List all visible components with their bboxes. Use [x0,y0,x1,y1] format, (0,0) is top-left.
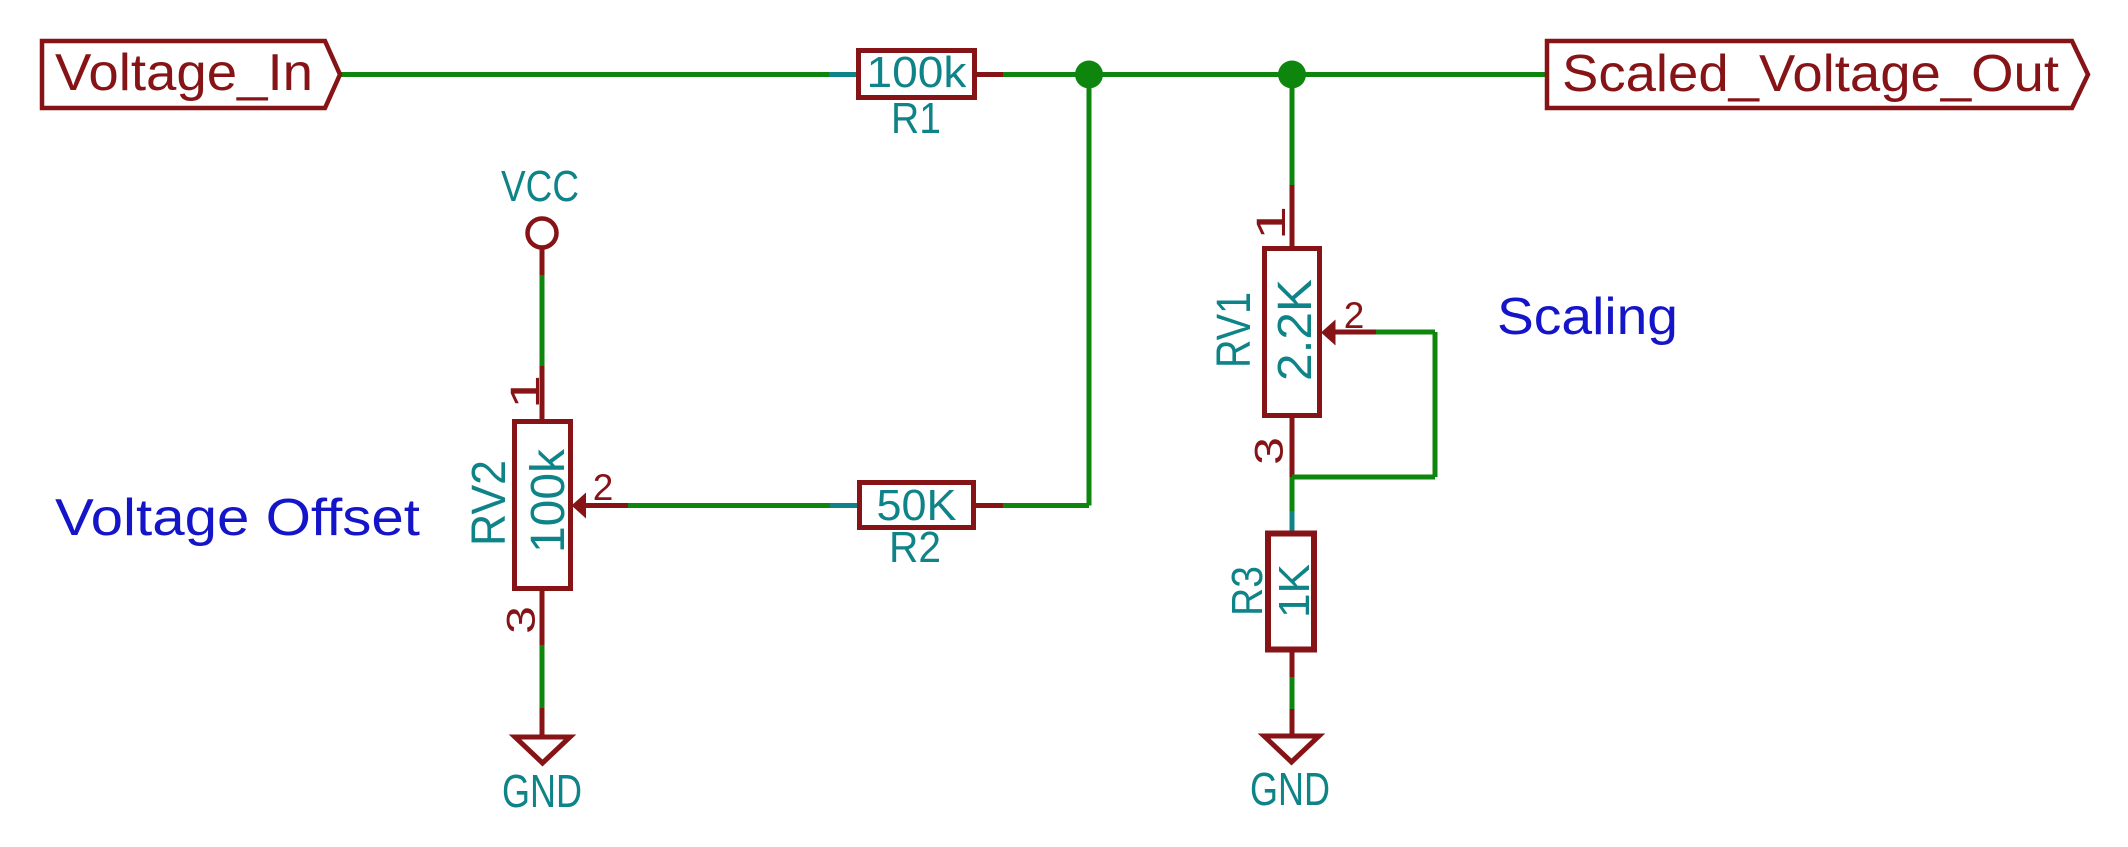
resistor R3 [1223,511,1319,677]
R1 pin 1 (left) [829,72,857,77]
R3 pin 1 (top) [1290,511,1295,536]
svg-text:2.2K: 2.2K [1269,279,1322,381]
GND triangle [1264,736,1319,762]
svg-text:R1: R1 [891,94,941,143]
RV1 wiper arrowhead [1321,320,1336,346]
svg-text:1K: 1K [1270,564,1319,618]
resistor R2 [830,481,1003,572]
svg-text:1: 1 [1249,206,1294,240]
svg-text:2: 2 [1344,295,1365,336]
VCC circle [528,219,557,248]
svg-text:Scaling: Scaling [1497,288,1678,346]
resistor R1 [829,48,1003,143]
RV1 pin 2 (wiper) [1334,330,1376,335]
RV2 wiper arrowhead [572,493,587,519]
wire R1 to Scaled_Voltage_Out [1003,72,1548,77]
wire R3 to GND [1290,677,1295,709]
junction A [1075,61,1103,89]
RV2 body [515,422,571,589]
R2 pin 2 (right) [975,503,1003,508]
wire RV1 wiper loop vertical [1433,332,1438,477]
junction B [1278,61,1306,89]
VCC pin stub [540,248,545,276]
R2 pin 1 (left) [830,503,858,508]
potentiometer RV1 [1208,185,1376,477]
GND triangle [515,737,570,763]
wire RV2 pin 3 to GND [540,645,545,708]
power symbol VCC [501,162,579,275]
svg-text:Scaled_Voltage_Out: Scaled_Voltage_Out [1562,45,2060,103]
R2 body [860,483,974,528]
wire junction B down to RV1 pin 1 [1290,75,1295,186]
RV1 body [1265,249,1320,416]
RV2 pin 2 (wiper) [585,503,628,508]
global label Voltage_In [42,41,340,108]
ground GND (right) [1250,709,1330,815]
RV2 pin 3 [540,591,545,645]
svg-text:1: 1 [503,375,548,409]
R1 body [859,51,975,98]
svg-text:Voltage Offset: Voltage Offset [55,489,421,547]
svg-text:RV1: RV1 [1208,292,1261,368]
svg-text:R3: R3 [1223,566,1272,616]
wire RV1 wiper loop horizontal top [1376,330,1435,335]
global label Scaled_Voltage_Out [1547,41,2088,108]
wire VCC to RV2 pin 1 [540,275,545,366]
wire junction A down to R2 level [1087,75,1092,506]
wire Voltage_In to R1 [340,72,829,77]
RV1 pin 3 [1290,418,1295,477]
svg-text:GND: GND [1250,763,1330,815]
wire RV2 wiper to R2 [628,503,830,508]
wire to R2 right pin [1003,503,1089,508]
RV2 pin 1 [540,366,545,420]
ground GND (left) [502,708,582,817]
svg-text:2: 2 [593,467,614,508]
R3 pin 2 (bottom) [1290,652,1295,677]
GND pin stub [540,708,545,737]
svg-text:3: 3 [498,606,543,634]
wire RV1 pin 3 to R3 [1290,477,1295,511]
GND pin stub [1290,709,1295,736]
svg-text:R2: R2 [889,523,941,572]
svg-text:100k: 100k [867,48,968,97]
svg-text:RV2: RV2 [463,460,516,546]
svg-text:Voltage_In: Voltage_In [55,44,313,102]
potentiometer RV2 [463,366,628,645]
svg-text:3: 3 [1246,437,1291,465]
R1 pin 2 (right) [975,72,1003,77]
RV1 pin 1 [1290,185,1295,247]
svg-text:GND: GND [502,765,582,817]
svg-text:100k: 100k [522,448,575,553]
wire RV1 wiper loop horizontal bottom [1292,475,1435,480]
svg-text:VCC: VCC [501,162,579,211]
R3 body [1268,534,1314,650]
